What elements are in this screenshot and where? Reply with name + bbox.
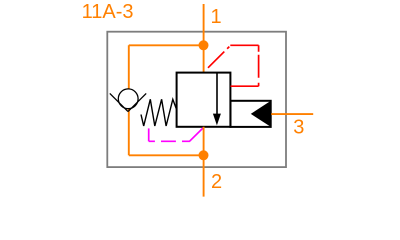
wire port 1 vertical (203, 4, 205, 73)
magenta drain diagonal (190, 128, 204, 141)
red pilot bottom horizontal (231, 85, 259, 87)
junction node 1 (199, 40, 209, 50)
pilot box (231, 101, 271, 127)
check valve seat right line (128, 93, 146, 111)
wire port 2 vertical (203, 127, 205, 197)
wire node1 to left corner (129, 44, 204, 46)
red pilot dashed diagonal (208, 47, 229, 68)
flow arrow head (213, 114, 221, 126)
junction node 2 (199, 150, 209, 160)
spring (141, 99, 176, 126)
svg-text:1: 1 (211, 6, 222, 28)
wire left vertical (128, 45, 130, 155)
check valve circle (118, 89, 138, 109)
svg-text:3: 3 (293, 117, 304, 139)
red pilot top horizontal (230, 44, 258, 46)
magenta drain dashed horizontal (149, 140, 190, 142)
magenta drain vertical (148, 128, 150, 141)
flow arrow shaft (216, 73, 218, 116)
enclosure border (107, 32, 286, 167)
pilot triangle (251, 101, 271, 127)
check valve seat left line (110, 93, 128, 111)
svg-text:2: 2 (211, 171, 222, 193)
svg-text:11A-3: 11A-3 (82, 1, 134, 23)
valve body (177, 73, 231, 127)
wire port 3 (271, 113, 313, 115)
wire bottom horizontal to node 2 (129, 154, 204, 156)
red pilot dashed right vertical (258, 45, 260, 86)
